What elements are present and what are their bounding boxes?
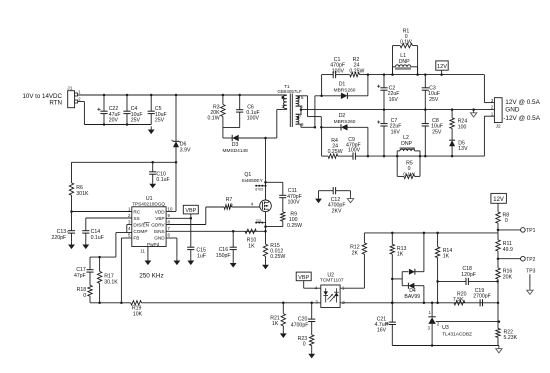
wire minus12 to J2 pin3 (484, 116, 494, 156)
wire FB bottom rail left (90, 302, 131, 304)
connector J2 output (491, 98, 541, 130)
resistor R11 49.9 (496, 233, 513, 259)
diode D1 MBRS260 (315, 82, 368, 99)
svg-text:Q1: Q1 (244, 172, 251, 178)
capacitor C1 470pF 100V (330, 57, 350, 78)
inductor L1 DNP with resistor R1 0 0.1W (391, 29, 419, 76)
capacitor C4 10uF 25V (123, 94, 142, 126)
resistor R12 2K (350, 233, 367, 257)
resistor R16 20K (496, 259, 513, 282)
svg-text:TPS40210DGQ: TPS40210DGQ (132, 202, 165, 207)
capacitor C19 2700pF (473, 288, 491, 307)
svg-text:5.23K: 5.23K (504, 335, 518, 341)
svg-text:TL431ACDBZ: TL431ACDBZ (442, 331, 472, 337)
svg-text:2KV: 2KV (332, 208, 342, 214)
wire Q1 drain vertical (265, 138, 267, 186)
capacitor C3 10uF 25V (422, 73, 440, 111)
chassis ground below C12 right (347, 195, 353, 202)
wire U2 pin1 to R12 (340, 254, 364, 288)
inductor L2 DNP with resistor R5 0 0.1W (396, 135, 421, 178)
node 12V box top (436, 61, 448, 76)
svg-text:FB: FB (133, 236, 139, 241)
capacitor C9 470pF 100V (346, 137, 368, 160)
chassis ground below R22 (496, 346, 502, 353)
svg-text:MBRS260: MBRS260 (334, 119, 356, 125)
capacitor C14 0.1uF (82, 229, 104, 241)
wire VIN top rail (78, 94, 287, 96)
svg-text:D1: D1 (339, 82, 346, 88)
shunt regulator U3 TL431ACDBZ (428, 302, 500, 347)
transformer T1 GB84057LF (277, 84, 304, 127)
resistor R9 100 0.25W snubber (264, 198, 302, 229)
svg-text:J1: J1 (67, 85, 72, 91)
svg-text:RTN: RTN (49, 100, 62, 107)
svg-text:1K: 1K (272, 321, 279, 327)
svg-text:12V @ 0.5A: 12V @ 0.5A (505, 99, 540, 106)
svg-text:0.1uF: 0.1uF (156, 177, 169, 183)
resistor R7 10 (224, 197, 260, 209)
ground below C5 input rail (148, 126, 155, 134)
test point TP2 (497, 256, 536, 263)
svg-text:2K: 2K (352, 251, 359, 257)
capacitor C20 4700pF (291, 302, 316, 335)
resistor R2 24 0.25W (349, 57, 392, 77)
svg-text:0: 0 (408, 166, 411, 172)
test point TP1 (497, 228, 536, 235)
opto U2 TCMT1107 (315, 273, 346, 308)
resistor R20 7.5K (453, 291, 467, 305)
wire T1 pin5 to D2 node (296, 96, 323, 129)
wire GDRV to gate (166, 207, 224, 225)
svg-text:20K: 20K (503, 274, 513, 280)
svg-text:GB84057LF: GB84057LF (277, 89, 302, 94)
svg-text:PwPd: PwPd (147, 242, 160, 247)
wire FB bottom rail middle (141, 302, 283, 304)
wire D1 cathode to rail (367, 73, 370, 95)
resistor R18 0 (77, 285, 93, 303)
svg-text:ISNS: ISNS (154, 229, 165, 234)
svg-text:-12V @ 0.5A: -12V @ 0.5A (503, 115, 540, 122)
svg-text:RC: RC (133, 210, 140, 215)
svg-text:4700pF: 4700pF (291, 322, 309, 328)
svg-text:0.1uF: 0.1uF (91, 235, 104, 241)
zener diode D6 3.9V (172, 94, 191, 163)
wire analog bottom ground rail (392, 345, 499, 347)
pin 11 PwPd ground (140, 247, 151, 266)
svg-text:GND: GND (505, 107, 520, 114)
svg-text:100V: 100V (348, 148, 361, 154)
svg-text:16V: 16V (377, 328, 387, 334)
wire T1 pin8 (296, 124, 317, 128)
svg-text:0.25W: 0.25W (349, 68, 364, 74)
ground below C10 (149, 181, 156, 189)
svg-text:100V: 100V (332, 68, 345, 74)
svg-text:12V: 12V (437, 64, 447, 70)
resistor R14 1K (435, 232, 452, 282)
resistor R23 0 (298, 335, 314, 351)
svg-text:25V: 25V (131, 118, 141, 124)
svg-text:3.9V: 3.9V (180, 148, 191, 154)
diode D4 BAV99 (392, 232, 425, 304)
wire U1 VBP pin9 (166, 217, 192, 247)
resistor R8 0 (496, 212, 509, 233)
resistor R24 100 (450, 108, 467, 140)
svg-text:12V: 12V (493, 197, 504, 203)
svg-text:10K: 10K (133, 311, 143, 317)
capacitor C13 220pF (51, 212, 75, 242)
ground below R23 (308, 351, 315, 359)
capacitor C7 22uF 16V (377, 110, 401, 158)
wire COMP pin4 line (90, 233, 132, 258)
svg-text:49.9: 49.9 (503, 247, 513, 253)
ground below R15 (262, 262, 269, 270)
zener diode D5 13V (449, 140, 468, 157)
resistor R10 1K (245, 229, 256, 249)
capacitor C11 470pF 100V snubber (264, 181, 302, 206)
capacitor C12 4700pF 2KV (319, 187, 351, 214)
svg-text:25V: 25V (429, 97, 439, 103)
wire plus12 to J2 pin1 (393, 75, 495, 103)
svg-text:VBP: VBP (185, 208, 196, 214)
svg-text:TP3: TP3 (526, 268, 535, 274)
capacitor C22 47uF 20V (97, 94, 120, 126)
text 250 KHz (139, 273, 164, 280)
resistor R22 5.23K (496, 303, 518, 346)
svg-text:11: 11 (140, 248, 145, 253)
svg-text:GND: GND (154, 236, 165, 241)
svg-text:U3: U3 (442, 325, 449, 331)
svg-text:TCMT1107: TCMT1107 (320, 278, 344, 284)
resistor R3 20K 0.1W (207, 94, 225, 128)
resistor R15 0.012 0.25W current sense (263, 230, 285, 262)
node VBP box at U1 (183, 205, 198, 218)
svg-text:0.25W: 0.25W (328, 149, 343, 155)
svg-text:TP2: TP2 (526, 257, 535, 263)
svg-text:BAV99: BAV99 (404, 294, 420, 300)
svg-text:1K: 1K (397, 252, 404, 258)
wire VDD sense rail (72, 161, 178, 211)
svg-text:DNP: DNP (401, 141, 412, 147)
ground below C16 (230, 260, 237, 268)
wire feedback sense rail (364, 232, 498, 234)
svg-text:100V: 100V (288, 200, 301, 206)
svg-text:8765: 8765 (255, 188, 263, 192)
ground below C13 (68, 241, 75, 249)
resistor R19 10K (131, 301, 143, 318)
wire ISNS line (166, 230, 265, 232)
svg-text:0.25W: 0.25W (270, 254, 285, 260)
svg-text:7.5K: 7.5K (453, 297, 464, 303)
transistor Q1 Si4850EY (242, 172, 272, 232)
svg-text:16V: 16V (389, 97, 399, 103)
svg-text:16V: 16V (391, 129, 401, 135)
capacitor C18 120pF (436, 266, 499, 304)
svg-text:Si4850EY: Si4850EY (242, 178, 264, 184)
svg-text:U2: U2 (327, 273, 334, 279)
diode D3 MMSD4148 (223, 135, 266, 154)
wire secondary ground rail (301, 109, 494, 111)
pin numbers U1 right (168, 207, 173, 238)
capacitor C17 47pF (74, 257, 94, 285)
svg-text:MBRS260: MBRS260 (334, 87, 356, 93)
ground below C15 (187, 257, 194, 265)
wire R3 C6 bottom join (223, 128, 240, 138)
resistor R6 301K (69, 162, 89, 211)
svg-text:30.1K: 30.1K (104, 279, 118, 285)
svg-text:VBP: VBP (298, 275, 309, 281)
resistor R17 30.1K (97, 256, 118, 304)
capacitor C21 4.7uF 16V (375, 302, 396, 346)
svg-text:1K: 1K (248, 244, 255, 250)
wire FB pin5 line (120, 238, 132, 304)
svg-text:0: 0 (303, 342, 306, 348)
wire D2 anode to minus12 rail (367, 127, 370, 157)
wire D1 anode riser (314, 96, 316, 128)
wire R16 node to C19 node (497, 281, 500, 304)
svg-text:SS: SS (133, 216, 139, 221)
capacitor C16 150pF (216, 230, 237, 260)
svg-text:25V: 25V (432, 129, 442, 135)
svg-text:1K: 1K (443, 254, 450, 260)
svg-text:220pF: 220pF (51, 235, 66, 241)
svg-text:120pF: 120pF (461, 272, 476, 278)
svg-text:10: 10 (168, 207, 173, 212)
wire T1 pin6 pin7 to ground rail (296, 106, 303, 114)
ground below R21 (280, 330, 287, 338)
wire RC pin1 line (70, 210, 132, 213)
svg-text:0: 0 (83, 293, 86, 299)
wire bottom rail into U2 pin3 (283, 302, 321, 304)
test point TP3 (526, 268, 535, 294)
svg-text:COMP: COMP (133, 229, 147, 234)
wire U1 GND pin6 to ground (166, 238, 180, 265)
svg-text:100V: 100V (247, 116, 260, 122)
svg-text:DIS/EN: DIS/EN (133, 223, 149, 228)
svg-text:1uF: 1uF (197, 253, 206, 259)
svg-text:0.1W: 0.1W (400, 39, 412, 45)
capacitor C2 22uF 16V (377, 73, 399, 111)
svg-text:VDD: VDD (155, 210, 166, 215)
resistor R21 1K (270, 302, 285, 331)
svg-text:VBP: VBP (155, 216, 164, 221)
wire J1 pin2 return to input ground rail (78, 102, 152, 125)
svg-text:D3: D3 (232, 142, 239, 148)
svg-text:150pF: 150pF (216, 253, 231, 259)
svg-text:4: 4 (251, 202, 254, 207)
svg-text:0: 0 (505, 218, 508, 224)
wire D3 line to transformer pin3 drop (264, 109, 287, 139)
svg-text:0.1W: 0.1W (403, 171, 415, 177)
wire SS pin2 line (86, 218, 132, 231)
svg-text:0.1W: 0.1W (207, 115, 219, 121)
wire plus12 rail with snubber (322, 75, 334, 96)
capacitor C6 0.1uF 100V (236, 94, 260, 128)
ground below C12 left (315, 195, 322, 203)
svg-text:TP1: TP1 (526, 228, 535, 234)
wire DIS pin3 hook (127, 225, 132, 233)
diode D2 MBRS260 (321, 113, 368, 131)
svg-text:R7: R7 (226, 197, 233, 203)
resistor R13 1K (390, 232, 406, 304)
capacitor C8 10uF 25V (422, 110, 443, 158)
svg-text:MMSD4148: MMSD4148 (223, 148, 249, 154)
svg-text:100: 100 (458, 124, 467, 130)
svg-text:DNP: DNP (399, 59, 410, 65)
svg-text:J2: J2 (496, 124, 501, 130)
ground below C14 (82, 241, 89, 249)
wire D2 cathode snubber drop (322, 127, 329, 156)
svg-text:301K: 301K (76, 191, 89, 197)
node VBP box at U2 (296, 272, 321, 288)
op-amp U1 TPS40210DGQ controller box (132, 196, 166, 247)
svg-text:47pF: 47pF (74, 273, 86, 279)
pin numbers U1 left (128, 207, 131, 238)
resistor R4 24 0.25W (328, 138, 353, 158)
svg-text:20V: 20V (109, 118, 119, 124)
wire minus12 rail (368, 155, 485, 157)
capacitor C5 10uF 25V (148, 94, 167, 125)
ground hanger on output rail (470, 108, 476, 117)
capacitor C15 1uF (187, 247, 206, 259)
svg-text:GDRV: GDRV (151, 223, 165, 228)
wire U2 pin2 bottom rail right (340, 302, 498, 304)
svg-text:D2: D2 (339, 113, 346, 119)
svg-text:0.25W: 0.25W (287, 223, 302, 229)
capacitor C10 0.1uF (149, 161, 170, 183)
svg-text:25V: 25V (155, 118, 165, 124)
svg-text:250 KHz: 250 KHz (139, 273, 164, 280)
svg-text:2700pF: 2700pF (473, 294, 491, 300)
svg-text:10: 10 (227, 202, 233, 208)
connector J1 input 10V-14VDC (22, 85, 81, 107)
node 12V box right (491, 193, 507, 212)
svg-text:13V: 13V (458, 146, 468, 152)
